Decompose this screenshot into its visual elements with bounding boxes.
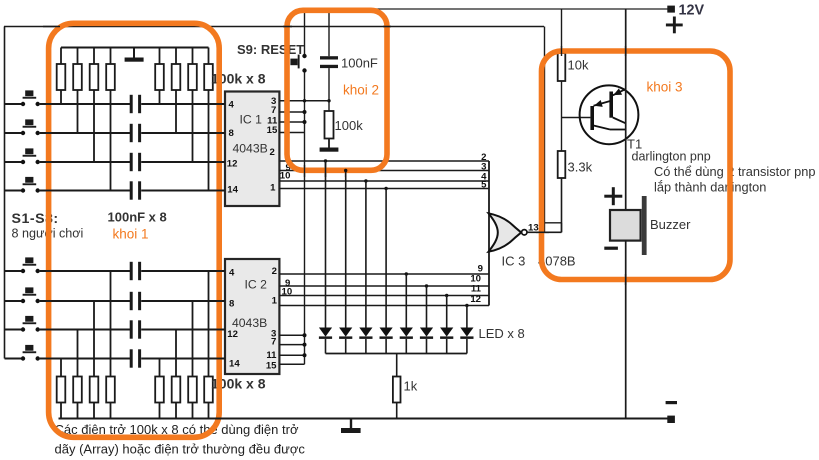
capacitor C8 100nF [130, 349, 141, 367]
node darlington pnp label [632, 150, 711, 164]
wire output up to 3.3k [561, 178, 563, 232]
wire LED2 drop over annotation [344, 169, 347, 177]
node 12V label [679, 3, 705, 19]
IC U3 pin 4 label [481, 172, 487, 183]
node S9 RESET label [237, 42, 304, 57]
wire row 2 (button to cap) [40, 132, 132, 134]
wire IC1 pin11 stub [279, 120, 306, 124]
wire button rail over annotation [43, 26, 391, 28]
resistor R4 100k (top bank) [106, 48, 115, 191]
node + polarity mark at 12V [666, 17, 683, 34]
capacitor C5 100nF [130, 262, 141, 280]
gate U3 4078B NOR body [489, 213, 522, 251]
IC U1 name label [233, 113, 268, 156]
resistor R18 1k [393, 354, 401, 419]
node khoi 3 label [647, 80, 683, 95]
wire row 6 (button to cap) [40, 300, 132, 302]
IC U2 name label [232, 278, 267, 331]
wire row 4 (cap to IC1 pin) [141, 190, 225, 192]
svg-text:S1-S8:: S1-S8: [12, 211, 59, 227]
node bottom note line 2 [55, 442, 306, 457]
svg-text:2: 2 [272, 266, 277, 277]
wire rows over annotation left edge [44, 104, 54, 359]
diode LED2 [339, 169, 352, 354]
switch S4 pushbutton [5, 177, 40, 193]
IC U1 4043B body [225, 92, 279, 207]
IC U2 pin 9 label [285, 278, 290, 289]
IC U2 4043B body [225, 259, 279, 374]
IC U1 pin 4 label [229, 100, 235, 111]
resistor R7b 100k (bottom bank) [188, 301, 197, 419]
wire reset bus over annotation [304, 165, 306, 177]
resistor R1b 100k (bottom bank) [57, 359, 66, 419]
switch S3 pushbutton [5, 148, 40, 164]
wire bottom ground rail [59, 418, 672, 420]
wire IC1 output Q3 to NOR [279, 180, 489, 182]
annotation box khoi 2 [287, 10, 387, 170]
wire khoi3 verticals over annotation [562, 46, 626, 285]
IC U1 pin 9 label [286, 163, 291, 174]
node 100nF value label [341, 56, 378, 71]
svg-text:3.3k: 3.3k [568, 160, 593, 175]
resistor R3 100k (top bank) [90, 48, 99, 163]
svg-text:IC 1: IC 1 [240, 113, 263, 127]
IC U2 pin 8 label [229, 299, 235, 310]
wire row 5 (cap to IC2 pin) [141, 270, 225, 272]
svg-text:12: 12 [227, 159, 238, 170]
node - polarity mark [666, 401, 677, 404]
wire S9 to +12V rail [304, 9, 306, 54]
IC U2 pin 14 label [229, 359, 240, 370]
wire buzzer to ground rail [625, 241, 627, 419]
resistor R17 100k reset [325, 111, 334, 139]
wire LED1 drop over annotation [325, 163, 327, 177]
resistor R4b 100k (bottom bank) [106, 271, 115, 419]
wire feedback from output [544, 27, 546, 233]
buzzer BZ1 [604, 187, 646, 255]
node khoi 2 label [343, 83, 379, 98]
node note line 1 [654, 164, 816, 179]
svg-text:1k: 1k [404, 379, 418, 394]
wire row 5 (button to cap) [40, 270, 132, 272]
svg-text:4043B: 4043B [232, 316, 267, 330]
ground khoi2 symbol [320, 139, 339, 152]
switch S6 pushbutton [5, 287, 40, 303]
svg-text:IC 2: IC 2 [245, 278, 268, 292]
svg-text:12V: 12V [679, 3, 705, 19]
node note line 2 [654, 180, 766, 195]
node 100nF x 8 label [108, 210, 167, 225]
IC U1 pin 3 label [271, 96, 276, 107]
svg-text:100nF: 100nF [341, 56, 378, 71]
ground bar on top bus [125, 48, 144, 62]
svg-text:4: 4 [229, 100, 235, 111]
diode LED7 [440, 294, 453, 354]
svg-text:14: 14 [227, 185, 238, 196]
svg-text:khoi 2: khoi 2 [343, 83, 379, 98]
resistor R3b 100k (bottom bank) [90, 301, 99, 419]
wire IC1 pin7 stub [279, 110, 306, 114]
resistor R8 100k (top bank) [204, 48, 213, 191]
switch S9 reset pushbutton [290, 54, 306, 73]
wire feedback link [545, 223, 562, 233]
wire row 1 (cap to IC1 pin) [141, 103, 225, 105]
resistor R8b 100k (bottom bank) [204, 271, 213, 419]
wire IC1 output Q4 to NOR [279, 188, 489, 190]
IC U1 pin 12 label [227, 159, 238, 170]
svg-text:15: 15 [266, 360, 277, 371]
wire IC2 pin15 stub [279, 363, 304, 365]
IC U2 pin 10 label [282, 287, 293, 298]
svg-text:10: 10 [280, 171, 291, 182]
wire IC2 pin3 stub [279, 333, 306, 337]
IC U1 pin 8 label [229, 128, 235, 139]
resistor R6 100k (top bank) [172, 48, 181, 134]
resistor R5 100k (top bank) [155, 48, 164, 105]
node Buzzer label [650, 217, 691, 232]
svg-text:Buzzer: Buzzer [650, 217, 691, 232]
IC U1 pin 10 label [280, 171, 291, 182]
svg-text:4: 4 [229, 268, 235, 279]
node khoi 1 label [113, 227, 149, 242]
wire 100nF to +12V rail [328, 9, 330, 56]
node 10k value label [568, 58, 589, 73]
node S1-S8 label [12, 211, 59, 227]
resistor R1 100k (top bank) [57, 48, 66, 105]
svg-text:10k: 10k [568, 58, 589, 73]
terminal +12V [667, 6, 675, 13]
diode LED8 [460, 304, 473, 354]
wire IC2 output Q5 to NOR [279, 273, 489, 275]
ground main symbol [341, 419, 361, 434]
wire button common rail [4, 26, 544, 28]
wire IC1 output Q1 to NOR [279, 160, 489, 162]
IC U1 pin 2 label [269, 147, 274, 158]
wire NOR output pin 13 [527, 231, 562, 233]
wire 100nF to 100k [328, 68, 330, 111]
diode LED5 [400, 272, 413, 353]
diode LED1 [319, 159, 332, 353]
IC U2 pin 1 label [272, 295, 278, 306]
node 100k value label [335, 118, 364, 133]
IC U2 pin 12 label [227, 329, 238, 340]
svg-text:dãy (Array) hoặc điện trở thườ: dãy (Array) hoặc điện trở thường đều đượ… [55, 442, 306, 457]
diode LED3 [359, 179, 372, 353]
IC U1 pin 15 label [267, 125, 278, 136]
switch S2 pushbutton [5, 119, 40, 135]
annotation box khoi 1 [49, 23, 220, 437]
wire row 7 (cap to IC2 pin) [141, 329, 225, 331]
IC U2 pin 3 label [271, 328, 276, 339]
wire IC2 output Q7 to NOR [279, 295, 489, 297]
svg-text:8: 8 [229, 128, 235, 139]
wire resistor top bus [61, 47, 209, 49]
svg-text:1: 1 [272, 295, 278, 306]
svg-text:12: 12 [227, 329, 238, 340]
wire IC2 output Q8 to NOR [279, 305, 489, 307]
IC U2 pin 2 label [272, 266, 277, 277]
wire +12V to 10k [561, 9, 563, 53]
IC U2 pin 4 label [229, 268, 235, 279]
IC U3 pin 5 label [481, 180, 487, 191]
wire row 1 (button to cap) [40, 103, 132, 105]
svg-text:Có thể dùng 2 transistor pnp: Có thể dùng 2 transistor pnp [654, 164, 816, 179]
svg-text:darlington pnp: darlington pnp [632, 150, 711, 164]
wire LED cathode bus [326, 353, 467, 355]
wire row 7 (button to cap) [40, 329, 132, 331]
capacitor C7 100nF [130, 320, 141, 338]
IC U1 pin 11 label [267, 116, 278, 127]
capacitor C6 100nF [130, 292, 141, 310]
wire IC1 output Q2 to NOR [279, 170, 489, 172]
wire reset bus vertical [304, 73, 306, 365]
diode LED4 [380, 187, 393, 354]
IC U3 pin 2 label [481, 152, 486, 163]
capacitor C4 100nF [130, 181, 141, 199]
node 1k value label [404, 379, 418, 394]
wire NOR input bus [488, 161, 490, 306]
svg-text:S9: RESET: S9: RESET [237, 42, 304, 57]
diode LED6 [420, 284, 433, 353]
switch S1 pushbutton [5, 90, 40, 106]
svg-text:11: 11 [471, 284, 482, 295]
svg-text:5: 5 [481, 180, 487, 191]
resistor R19 10k [558, 53, 566, 81]
wire row 8 (button to cap) [40, 358, 132, 360]
wire row 2 (cap to IC1 pin) [141, 132, 225, 134]
svg-text:8: 8 [229, 299, 235, 310]
wire IC2 pin11 stub [279, 353, 306, 357]
svg-text:khoi 3: khoi 3 [647, 80, 683, 95]
switch S7 pushbutton [5, 316, 40, 332]
wire left frame bus [4, 27, 6, 359]
transistor T1 darlington pnp [580, 85, 639, 144]
wire row 3 (button to cap) [40, 161, 132, 163]
IC U2 pin 15 label [266, 360, 277, 371]
resistor R6b 100k (bottom bank) [172, 330, 181, 419]
capacitor C9 100nF reset [320, 56, 338, 68]
node 100k x 8 label top [211, 71, 266, 87]
svg-text:12: 12 [470, 294, 481, 305]
svg-text:100k: 100k [335, 118, 364, 133]
capacitor C3 100nF [130, 153, 141, 171]
svg-text:14: 14 [229, 359, 240, 370]
svg-text:2: 2 [269, 147, 274, 158]
resistor R5b 100k (bottom bank) [155, 359, 164, 419]
wire base node to T1 [562, 117, 591, 119]
wire rows over annotation right edge [214, 104, 225, 359]
node 100k x 8 label bottom [211, 376, 266, 392]
svg-text:4043B: 4043B [233, 142, 268, 156]
svg-text:1: 1 [270, 182, 276, 193]
IC U3 pin 10 label [470, 274, 481, 285]
wire IC2 output Q6 to NOR [279, 285, 489, 287]
IC U3 pin 12 label [470, 294, 481, 305]
svg-text:15: 15 [267, 125, 278, 136]
IC U1 pin 7 label [271, 105, 276, 116]
wire IC1 pin3 stub [279, 100, 329, 102]
wire +12V top rail [305, 8, 672, 10]
node LED x 8 label [479, 326, 525, 341]
IC U1 pin 1 label [270, 182, 276, 193]
svg-text:IC 3: IC 3 [502, 254, 526, 269]
node 3.3k value label [568, 160, 593, 175]
resistor R20 3.3k [558, 151, 566, 178]
IC U2 pin 11 label [266, 350, 277, 361]
gate U3 inversion bubble [522, 230, 527, 235]
IC U1 pin 14 label [227, 185, 238, 196]
wire row 8 (cap to IC2 pin) [141, 358, 225, 360]
node T1 label [627, 137, 642, 152]
wire bottom rail over annotation [214, 418, 225, 420]
wire row 4 (button to cap) [40, 190, 132, 192]
svg-text:lắp thành darlington: lắp thành darlington [654, 180, 766, 195]
wire row 3 (cap to IC1 pin) [141, 161, 225, 163]
node junction reset-pin3 [327, 99, 330, 102]
IC U3 pin 3 label [481, 161, 486, 172]
IC U3 pin 13 label [528, 223, 539, 234]
node bottom note line 1 [55, 422, 299, 437]
svg-text:khoi 1: khoi 1 [113, 227, 149, 242]
capacitor C1 100nF [130, 95, 141, 113]
svg-text:7: 7 [271, 337, 276, 348]
wire IC2 pin7 stub [279, 343, 306, 347]
IC U3 pin 9 label [478, 264, 483, 275]
resistor R2 100k (top bank) [73, 48, 82, 134]
svg-text:100nF x 8: 100nF x 8 [108, 210, 167, 225]
IC U3 pin 11 label [471, 284, 482, 295]
terminal negative [667, 416, 675, 423]
IC U2 pin 7 label [271, 337, 276, 348]
resistor R7 100k (top bank) [188, 48, 197, 163]
wire output over annotation [536, 231, 549, 233]
wire 10k to base node [561, 81, 563, 118]
capacitor C2 100nF [130, 124, 141, 142]
wire row 6 (cap to IC2 pin) [141, 300, 225, 302]
switch S5 pushbutton [5, 257, 40, 273]
wire IC1 pin15 stub [279, 99, 306, 132]
IC U3 name label [502, 254, 576, 269]
wire +12V to T1 emitter [625, 9, 627, 210]
wire base node to 3.3k [561, 118, 563, 151]
annotation box khoi 3 [542, 51, 731, 280]
resistor R2b 100k (bottom bank) [73, 330, 82, 419]
node 8 players label [12, 227, 84, 241]
svg-text:LED x 8: LED x 8 [479, 326, 525, 341]
switch S8 pushbutton [5, 345, 40, 361]
